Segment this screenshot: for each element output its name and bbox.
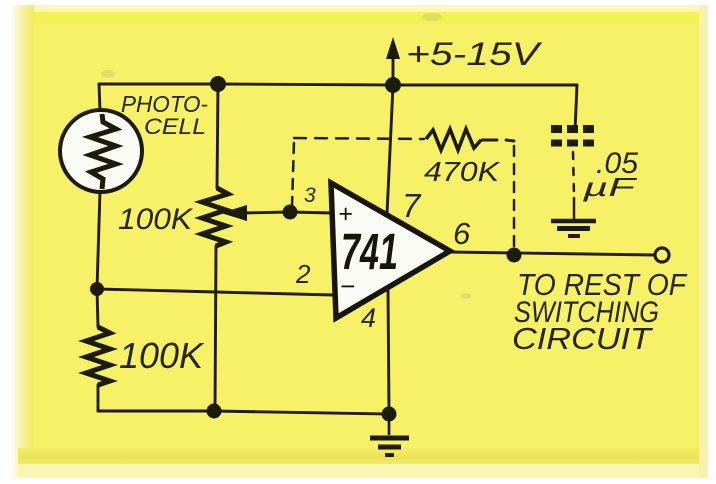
svg-text:741: 741 [341, 223, 398, 280]
output terminal [655, 248, 669, 262]
capacitor C1 .05uF [551, 129, 596, 143]
junction top-left [210, 76, 226, 92]
wire dashed feedback drop to output node [513, 146, 516, 248]
svg-text:100K: 100K [119, 335, 205, 376]
smudge marks [101, 13, 471, 299]
wire dashed feedback vertical left [292, 141, 294, 207]
svg-text:470K: 470K [424, 156, 501, 187]
wire right branch down to capacitor [575, 85, 577, 131]
wire pot bottom [215, 246, 216, 411]
wire pot top [217, 84, 218, 188]
svg-text:6: 6 [453, 216, 471, 251]
svg-text:7: 7 [402, 187, 422, 224]
junction bottom ground [382, 407, 397, 422]
junction supply [385, 77, 401, 93]
label .05 uF [581, 147, 638, 202]
wire pin 4 down [388, 289, 389, 414]
label PHOTO-CELL [121, 91, 208, 139]
wire dashed feedback horizontal [294, 138, 424, 139]
junction node A (pin 3) [283, 205, 298, 220]
wire dashed capacitor to ground [573, 152, 574, 196]
label TO REST OF SWITCHING CIRCUIT [512, 267, 688, 356]
svg-text:µF: µF [581, 172, 638, 202]
svg-text:CIRCUIT: CIRCUIT [512, 321, 653, 356]
ground near capacitor [551, 221, 596, 236]
wire pin 7 supply [387, 86, 393, 214]
power arrow [386, 37, 400, 59]
bottom shadow band [18, 448, 706, 464]
junction output node [507, 248, 522, 263]
bottom pale strip [18, 464, 706, 478]
svg-text:3: 3 [304, 184, 316, 207]
wire output pin 6 [450, 252, 654, 255]
wiper arrow [221, 205, 247, 221]
left soft edge [10, 5, 34, 478]
wire left vertical top [99, 84, 100, 111]
svg-text:4: 4 [361, 303, 376, 333]
wire top rail [99, 84, 577, 85]
wire supply arrow stem [392, 55, 395, 85]
junction left mid [90, 282, 104, 296]
top bright band [18, 5, 706, 12]
wire node A to pin 3 [289, 212, 333, 213]
junction bottom pot [207, 404, 222, 419]
wire bottom rail [98, 411, 389, 414]
resistor R2 100K [86, 327, 110, 385]
wire wiper to node A [244, 212, 289, 213]
svg-text:2: 2 [295, 259, 311, 289]
svg-text:CELL: CELL [144, 114, 206, 139]
svg-text:100K: 100K [118, 203, 194, 236]
photocell PC1 [60, 110, 142, 192]
wire 470K right stubs [482, 139, 497, 142]
wire left vertical middle [97, 191, 100, 327]
wire inverting input pin 2 [97, 289, 333, 295]
potentiometer R1 100K [202, 188, 247, 246]
resistor R3 470K [426, 129, 481, 150]
wire left vertical lower [97, 385, 100, 411]
op-amp U1 741 [331, 183, 450, 318]
right pale strip [699, 5, 708, 478]
svg-text:+5-15V: +5-15V [406, 36, 542, 72]
ground at pin 4 [370, 414, 409, 455]
wire capacitor ground stub [573, 198, 576, 218]
